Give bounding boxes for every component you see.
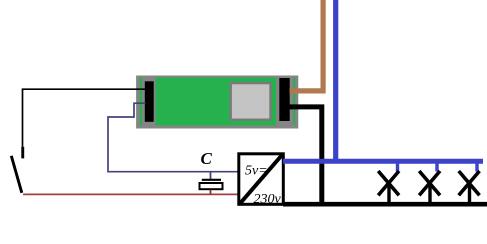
- lamp E3 feed stub: [475, 161, 478, 172]
- wire: thick blue bus from converter to right side: [283, 159, 483, 164]
- LED tube left contact bar: [145, 81, 154, 122]
- converter U1 diagonal: [240, 155, 282, 204]
- svg-text:230v: 230v: [254, 192, 282, 207]
- LED tube left end cap well: [142, 78, 156, 126]
- svg-text:5v=: 5v=: [245, 164, 268, 179]
- lamp E3 cross: [459, 171, 480, 195]
- lamp E2 lead to bottom bus: [428, 183, 431, 205]
- wire: thick black from tube right contact down to bottom bus: [289, 107, 322, 204]
- wire: thin dark-blue from tube left contact to converter left side: [108, 103, 238, 172]
- label 5v= (DC side): [245, 164, 268, 179]
- capacitor C bottom plate: [200, 183, 223, 189]
- lamp E1 cross: [378, 171, 399, 195]
- svg-text:C: C: [201, 149, 213, 168]
- label 230v (AC side): [254, 192, 282, 207]
- lamp E1 feed stub: [396, 161, 399, 172]
- switch S1 contact bar: [21, 147, 24, 159]
- LED tube module green board: [140, 78, 296, 126]
- lamp E2 feed stub: [435, 161, 438, 172]
- lamp E1 lead to bottom bus: [387, 183, 390, 205]
- label C: [201, 149, 213, 168]
- lamp E2 cross: [419, 171, 440, 195]
- LED tube driver block (light gray): [231, 83, 271, 120]
- wire: thick black bottom bus from converter to right edge: [283, 202, 487, 207]
- wire: thin red from switch to converter left side: [23, 193, 238, 195]
- wire: thick blue vertical from top edge to blue bus: [333, 0, 338, 161]
- converter U1 box: [239, 154, 283, 205]
- wire: brown from tube right contact up to top edge: [290, 0, 324, 91]
- lamp E3 lead to bottom bus: [468, 183, 471, 205]
- capacitor C bottom lead: [210, 190, 212, 195]
- LED tube right end cap well: [276, 76, 293, 126]
- LED tube module body frame: [136, 76, 298, 129]
- LED tube right contact bar: [279, 78, 289, 121]
- capacitor C top lead: [210, 172, 212, 180]
- wire: thin black from switch to tube left contact: [23, 89, 147, 147]
- capacitor C top plate: [202, 179, 221, 181]
- switch S1 lever: [11, 156, 21, 193]
